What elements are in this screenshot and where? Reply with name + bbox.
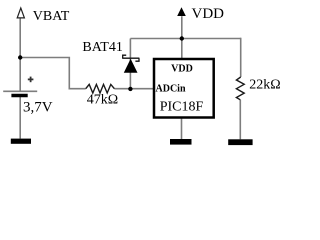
svg-text:PIC18F: PIC18F — [160, 100, 204, 115]
svg-text:BAT41: BAT41 — [82, 40, 122, 55]
svg-text:VBAT: VBAT — [33, 9, 70, 24]
svg-text:VDD: VDD — [192, 6, 225, 22]
svg-text:22kΩ: 22kΩ — [249, 78, 280, 93]
svg-text:47kΩ: 47kΩ — [87, 92, 118, 107]
svg-text:VDD: VDD — [171, 63, 193, 74]
svg-text:ADCin: ADCin — [156, 83, 186, 94]
svg-text:3,7V: 3,7V — [23, 100, 53, 116]
